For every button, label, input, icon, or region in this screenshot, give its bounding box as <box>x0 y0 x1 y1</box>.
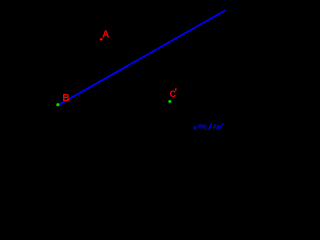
node B point (green) <box>56 103 59 106</box>
svg-text:B: B <box>62 93 69 104</box>
node C point (green) <box>168 100 171 103</box>
svg-text:dmg: dmg <box>198 124 206 131</box>
svg-text:PAY: PAY <box>213 123 223 132</box>
svg-text:x: x <box>193 123 197 132</box>
node A point (red) <box>100 38 103 41</box>
wire: blue ray from point B to top-right edge <box>59 11 225 105</box>
node C prime mark <box>175 88 177 90</box>
watermark text <box>193 123 224 133</box>
svg-text:C: C <box>170 89 177 99</box>
svg-text:A: A <box>102 30 109 41</box>
